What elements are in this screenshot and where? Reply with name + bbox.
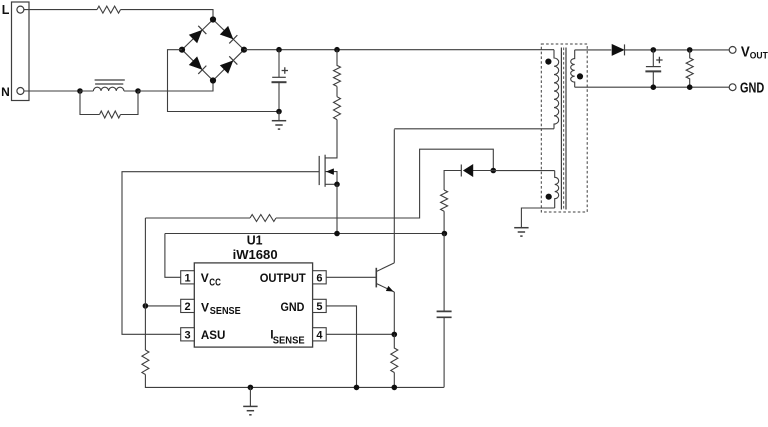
svg-text:2: 2 bbox=[184, 301, 190, 313]
svg-text:5: 5 bbox=[316, 301, 322, 313]
bjt Q2 emitter bbox=[377, 284, 395, 292]
node bus R1 bbox=[334, 47, 340, 53]
wire R2 to drain bbox=[325, 120, 337, 158]
label ASU bbox=[201, 328, 226, 342]
svg-text:U1: U1 bbox=[247, 233, 263, 248]
diode D6 (output) bbox=[612, 44, 625, 55]
bjt Q2 emitter arrow bbox=[386, 286, 395, 294]
transformer T1 core centerline bbox=[563, 48, 565, 210]
bridge diode D3 (left-bottom) bbox=[189, 57, 206, 74]
wire pin2 Vsense bbox=[145, 305, 180, 307]
wire Q1 source to VCC line bbox=[336, 184, 338, 233]
resistor R2 bbox=[334, 97, 341, 120]
wire Vsense vertical bbox=[144, 218, 146, 350]
label VOUT bbox=[741, 44, 768, 60]
wire primary to collector bbox=[393, 129, 395, 263]
transformer primary dot bbox=[545, 59, 551, 65]
ic U1 pin 1 box bbox=[181, 271, 195, 285]
inductor L1 winding bbox=[93, 87, 123, 91]
bjt Q2 base bar bbox=[375, 268, 377, 288]
transformer secondary dot bbox=[577, 73, 583, 79]
node out C2 bbox=[651, 47, 657, 53]
svg-text:SENSE: SENSE bbox=[210, 306, 241, 317]
resistor RD1 bbox=[100, 111, 121, 118]
input connector J1 bbox=[12, 2, 30, 101]
mosfet Q1 channel bar bbox=[324, 155, 326, 187]
capacitor C2 polarity + bbox=[656, 57, 662, 63]
terminal GND out bbox=[729, 84, 736, 91]
svg-text:GND: GND bbox=[281, 300, 305, 314]
node C1 ground bbox=[276, 109, 282, 115]
terminal L bbox=[17, 6, 24, 13]
svg-text:GND: GND bbox=[740, 80, 764, 96]
wire gate to ASU bbox=[122, 172, 319, 335]
label N bbox=[1, 85, 10, 99]
capacitor C2 plates bbox=[645, 67, 661, 72]
node Q1 source bbox=[334, 182, 340, 188]
terminal VOUT bbox=[729, 47, 736, 54]
wire pin4 Isense bbox=[326, 333, 394, 335]
mosfet Q1 gate bar bbox=[318, 156, 320, 185]
wire N to bridge bottom bbox=[138, 81, 213, 92]
capacitor C2 lead bottom bbox=[652, 71, 654, 87]
capacitor C1 lead bottom bbox=[278, 82, 280, 111]
ic U1 pin 4 box bbox=[313, 328, 327, 342]
mosfet Q1 source stub bbox=[325, 183, 337, 185]
node R7 ground bbox=[687, 84, 693, 90]
capacitor C2 lead top bbox=[652, 50, 654, 67]
svg-text:4: 4 bbox=[316, 329, 323, 341]
diode D5 (VCC) bbox=[461, 165, 473, 177]
wire Vsense to aux bbox=[276, 149, 493, 218]
bridge diode D1 (left-top) bbox=[189, 26, 206, 43]
transformer aux dot bbox=[546, 194, 552, 200]
label iW1680 bbox=[233, 247, 278, 262]
node bridge top bbox=[210, 16, 216, 22]
svg-text:6: 6 bbox=[316, 272, 322, 284]
svg-text:V: V bbox=[741, 44, 750, 60]
wire D5 cathode to R4 bbox=[444, 171, 461, 191]
wire R5 to rail bbox=[145, 375, 444, 388]
transformer aux winding bbox=[555, 171, 559, 208]
node bridge bottom bbox=[210, 77, 216, 83]
node C2 ground bbox=[651, 84, 657, 90]
label OUTPUT bbox=[260, 271, 307, 285]
wire pin5 GND bbox=[326, 306, 356, 388]
label ISENSE bbox=[270, 327, 305, 346]
node bus C1 bbox=[276, 47, 282, 53]
wire aux to D5 anode bbox=[473, 170, 494, 172]
wire primary bottom lead bbox=[394, 128, 554, 130]
svg-text:L: L bbox=[2, 3, 10, 17]
capacitor C3 lead bottom bbox=[443, 317, 445, 387]
wire damping loop left bbox=[80, 91, 100, 115]
resistor R4 (VCC) bbox=[441, 190, 448, 211]
wire damping loop right bbox=[121, 91, 139, 115]
resistor R7 (preload) bbox=[686, 50, 693, 87]
node aux bbox=[491, 168, 497, 174]
wire bridge negative return bbox=[168, 50, 280, 112]
wire secondary bottom bbox=[575, 86, 730, 88]
label GND bbox=[281, 300, 305, 314]
bjt Q2 collector bbox=[377, 263, 395, 272]
transformer secondary winding bbox=[571, 50, 575, 87]
wire D6 to Vout bbox=[625, 49, 729, 51]
resistor R1 bbox=[334, 50, 341, 87]
wire RF1 to bridge top bbox=[121, 10, 214, 20]
capacitor C1 lead top bbox=[278, 50, 280, 78]
node rail pin5 bbox=[354, 385, 360, 391]
wire Vsense line bbox=[145, 217, 250, 219]
capacitor C3 lead top bbox=[443, 234, 445, 312]
bridge BR1 diamond bbox=[182, 20, 244, 81]
bridge diode D2 (top-right) bbox=[220, 26, 237, 43]
wire R6 to rail bbox=[393, 373, 395, 388]
wire emitter to Isense node bbox=[393, 292, 395, 334]
svg-text:iW1680: iW1680 bbox=[233, 247, 278, 262]
svg-text:CC: CC bbox=[209, 278, 221, 289]
node bridge right bbox=[241, 47, 247, 53]
terminal N bbox=[17, 88, 24, 95]
wire node to node bbox=[80, 90, 138, 92]
resistor R5 (Vsense low) bbox=[142, 350, 149, 375]
label L bbox=[2, 3, 10, 17]
label U1 bbox=[247, 233, 263, 248]
mosfet Q1 body lead bbox=[325, 172, 337, 185]
node VCC cap bbox=[442, 231, 448, 237]
wire R4 to VCC line bbox=[443, 211, 445, 233]
ground primary rail bbox=[243, 387, 257, 414]
resistor R6 (Isense) bbox=[391, 334, 398, 372]
ground primary bulk bbox=[272, 112, 286, 130]
svg-text:ASU: ASU bbox=[201, 328, 226, 342]
svg-text:OUTPUT: OUTPUT bbox=[260, 271, 307, 285]
wire R1 to R2 bbox=[336, 86, 338, 96]
ic U1 pin 5 box bbox=[313, 299, 327, 313]
wire aux top lead bbox=[493, 170, 554, 172]
node out R7 bbox=[687, 47, 693, 53]
label GND out bbox=[740, 80, 764, 96]
svg-text:V: V bbox=[201, 300, 209, 314]
svg-text:N: N bbox=[1, 85, 10, 99]
transformer primary winding bbox=[554, 50, 559, 129]
wire L to RF1 bbox=[24, 9, 97, 11]
node bridge left bbox=[179, 47, 185, 53]
transformer T1 core bbox=[561, 48, 566, 210]
capacitor C1 plates bbox=[272, 77, 287, 82]
mosfet Q1 body arrow bbox=[327, 169, 334, 175]
capacitor C3 plates bbox=[437, 311, 452, 317]
transformer T1 shield box bbox=[541, 44, 587, 212]
wire secondary top bbox=[575, 49, 612, 51]
ic U1 body bbox=[194, 263, 312, 347]
wire VCC line bbox=[165, 233, 445, 235]
wire N to node bbox=[24, 90, 80, 92]
bridge diode D4 (bottom-right) bbox=[220, 56, 237, 73]
svg-text:3: 3 bbox=[184, 329, 190, 341]
wire pin6 to base bbox=[326, 276, 376, 278]
wire DC bus bbox=[244, 49, 554, 51]
svg-text:SENSE: SENSE bbox=[273, 335, 305, 346]
node N2 bbox=[135, 88, 141, 94]
resistor RF1 bbox=[97, 6, 121, 13]
capacitor C1 polarity + bbox=[282, 67, 288, 73]
node VCC source bbox=[334, 231, 340, 237]
node Isense bbox=[392, 332, 398, 338]
ic U1 pin 2 box bbox=[181, 299, 195, 313]
svg-text:OUT: OUT bbox=[750, 50, 768, 60]
ground aux bbox=[514, 227, 528, 236]
ic U1 pin 3 box bbox=[181, 328, 195, 342]
node rail ground bbox=[248, 385, 254, 391]
resistor R3 (Vsense) bbox=[250, 215, 276, 222]
node pin2 bbox=[143, 303, 149, 309]
inductor L1 core bbox=[95, 80, 125, 84]
label VSENSE bbox=[201, 300, 241, 317]
label VCC bbox=[201, 271, 221, 289]
svg-text:1: 1 bbox=[184, 272, 190, 284]
wire VCC to pin1 bbox=[165, 234, 181, 278]
wire aux bottom to ground bbox=[521, 208, 554, 227]
node N1 bbox=[77, 88, 83, 94]
svg-text:V: V bbox=[201, 271, 209, 285]
ic U1 pin 6 box bbox=[313, 271, 327, 285]
node rail R6 bbox=[392, 385, 398, 391]
